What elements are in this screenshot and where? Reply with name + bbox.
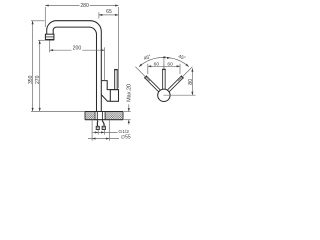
svg-text:280: 280	[80, 3, 89, 9]
svg-text:∅55: ∅55	[121, 135, 131, 141]
svg-text:60: 60	[154, 61, 160, 67]
svg-text:200: 200	[73, 45, 82, 51]
svg-text:350: 350	[28, 75, 34, 84]
svg-text:270: 270	[35, 75, 41, 84]
svg-text:80: 80	[188, 79, 194, 85]
svg-text:65: 65	[106, 9, 112, 15]
svg-text:Max.20: Max.20	[127, 84, 133, 102]
svg-text:60: 60	[167, 61, 173, 67]
